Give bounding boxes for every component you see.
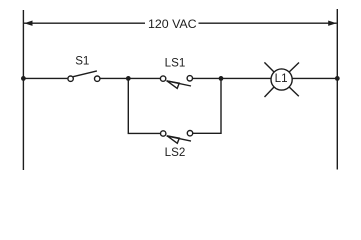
wire: lamp to right rail <box>292 77 337 79</box>
120 VAC dimension arrow right segment <box>199 22 337 24</box>
right arrowhead <box>328 21 336 26</box>
limit switch LS2 <box>161 131 193 144</box>
branch wire: node A down and across to LS2 <box>128 78 160 133</box>
left power rail <box>22 10 24 170</box>
limit switch LS1 <box>160 76 192 89</box>
wire: node A to LS1 <box>128 77 160 79</box>
node B junction dot <box>219 76 224 81</box>
lamp L1 <box>264 62 299 97</box>
switch S1 <box>68 71 100 82</box>
wire: S1 to node A <box>100 77 128 79</box>
svg-text:S1: S1 <box>75 55 89 68</box>
junction dot on left rail <box>21 76 26 81</box>
wire: LS1 to node B <box>193 77 222 79</box>
wire: node B to lamp L1 <box>221 77 271 79</box>
left arrowhead <box>24 21 32 26</box>
node A junction dot <box>126 76 131 81</box>
svg-text:LS2: LS2 <box>165 146 186 159</box>
svg-text:120 VAC: 120 VAC <box>148 17 197 31</box>
svg-text:L1: L1 <box>275 72 288 85</box>
junction dot on right rail <box>335 76 340 81</box>
svg-text:LS1: LS1 <box>165 56 186 69</box>
branch wire: LS2 across and up to node B <box>193 78 221 133</box>
wire: left rail to S1 <box>23 77 67 79</box>
120 VAC dimension arrow left segment <box>24 22 145 24</box>
right power rail <box>336 9 338 170</box>
